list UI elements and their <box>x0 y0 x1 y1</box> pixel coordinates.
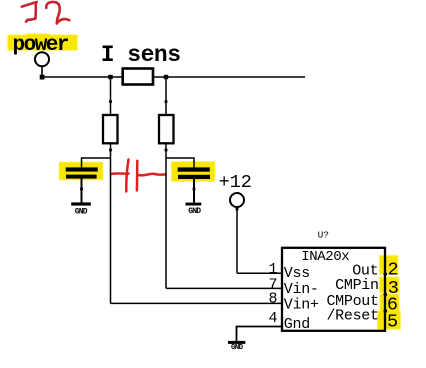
highlight pin 5 <box>377 311 400 329</box>
wire right branch upper <box>165 77 167 115</box>
pin dot R2 top <box>165 100 168 103</box>
svg-text:Gnd: Gnd <box>284 316 310 333</box>
resistor R sense <box>123 69 153 85</box>
svg-text:Vin+: Vin+ <box>284 297 319 314</box>
wire C2 tee <box>166 158 194 168</box>
svg-text:U?: U? <box>318 230 329 241</box>
wire left branch upper <box>110 77 112 115</box>
svg-text:/Reset: /Reset <box>326 308 378 325</box>
wire to pin 1 <box>237 272 282 274</box>
svg-text:power: power <box>13 34 69 57</box>
wire C1 to gnd <box>81 179 83 203</box>
resistor R2 <box>159 115 174 143</box>
svg-text:+12: +12 <box>219 172 252 193</box>
svg-text:INA20x: INA20x <box>301 249 349 265</box>
wire power stem <box>41 66 43 77</box>
pin dot R1 top <box>109 100 112 103</box>
wire to pin 8 <box>111 302 282 304</box>
resistor R1 <box>103 115 118 143</box>
highlight C1 <box>59 162 103 180</box>
capacitor C1 <box>66 167 98 171</box>
svg-text:GND: GND <box>75 207 88 216</box>
svg-text:8: 8 <box>268 290 277 307</box>
pin stub 6 <box>384 310 387 313</box>
op-amp U1 (INA20x box) <box>282 248 385 331</box>
highlight pin 3 <box>379 277 399 293</box>
connector +12 circle <box>230 193 244 207</box>
capacitor C2 <box>178 167 210 171</box>
wire left branch lower <box>110 143 112 303</box>
svg-text:CMPin: CMPin <box>335 277 379 294</box>
pin stub 2 <box>384 273 387 276</box>
highlight power <box>8 35 78 51</box>
wire to pin 7 <box>166 287 282 289</box>
wire right branch lower <box>165 143 167 288</box>
connector J2 circle <box>35 52 49 66</box>
ground C2 <box>186 203 202 206</box>
capacitor C3 (red hand-drawn) <box>111 160 166 192</box>
pin dot +12 <box>236 208 239 211</box>
svg-text:4: 4 <box>268 310 277 327</box>
wire from pin 4 <box>237 327 282 342</box>
svg-text:1: 1 <box>268 261 277 278</box>
annotation J2 <box>22 2 70 24</box>
pin dot R1 bottom <box>109 149 112 152</box>
highlight pin 6 <box>380 294 400 311</box>
svg-text:GND: GND <box>188 207 201 216</box>
svg-text:GND: GND <box>231 344 244 352</box>
wire +12 stem <box>236 207 238 273</box>
node left branch <box>108 75 112 79</box>
wire C2 to gnd <box>193 179 195 203</box>
node power junction <box>40 75 45 80</box>
svg-text:I sens: I sens <box>101 42 181 68</box>
highlight pin 2 <box>379 255 398 274</box>
pin dot R2 bottom <box>165 149 168 152</box>
wire top horizontal <box>42 76 305 78</box>
svg-text:Vss: Vss <box>284 265 310 282</box>
svg-text:5: 5 <box>387 312 398 333</box>
pin stub 3 <box>384 293 387 296</box>
highlight C2 <box>171 162 215 182</box>
pin dot C1 <box>80 188 83 191</box>
ground C1 <box>71 202 91 205</box>
node right branch <box>164 75 168 79</box>
wire C1 tee <box>82 158 111 168</box>
svg-text:Vin-: Vin- <box>284 281 319 298</box>
ground U1 <box>228 341 245 344</box>
pin dot C2 <box>193 188 196 191</box>
